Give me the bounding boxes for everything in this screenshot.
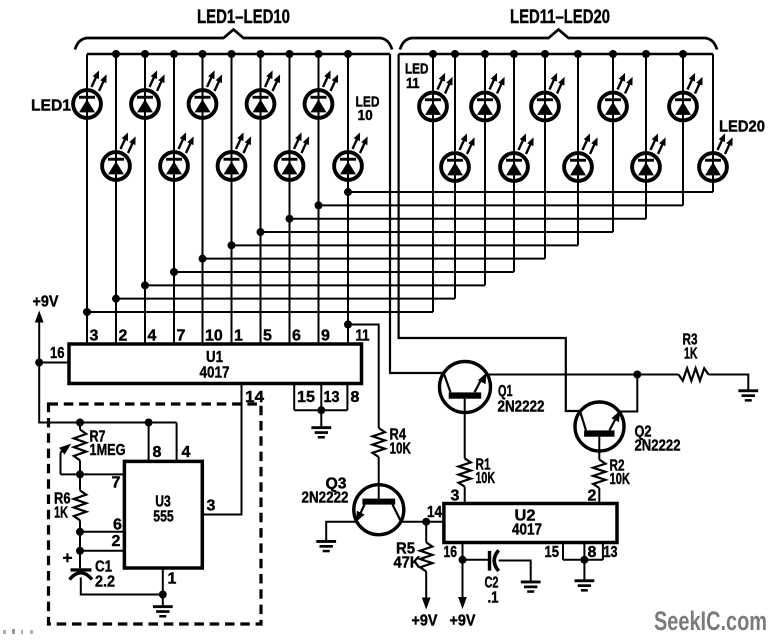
svg-text:8: 8 [351, 389, 360, 406]
ground C2 [521, 581, 541, 593]
label R3 [683, 332, 698, 349]
brace over LED11-LED20 [400, 30, 717, 50]
svg-text:6: 6 [113, 517, 122, 534]
wire right column 3 (LED13) [484, 54, 486, 285]
U1 output pin numbers [90, 328, 331, 345]
wire pairing LED3/LED13 [141, 281, 485, 289]
ground U1 pins 15-13-8 [311, 410, 331, 438]
label R5 [396, 541, 415, 558]
U3 pin 8 label [153, 444, 162, 461]
svg-text:LED1–LED10: LED1–LED10 [197, 7, 290, 28]
scan artifact bottom-left [3, 629, 33, 634]
U3 pin 4 label [182, 444, 191, 461]
wire Q1 base to R1 [464, 399, 466, 459]
wire left column 5 (LED5 to U1) [202, 54, 204, 344]
svg-text:+9V: +9V [33, 294, 59, 311]
resistor R5 [420, 522, 432, 572]
wire U1 pin16 to +9V rail [39, 362, 69, 364]
U1 pin 16 label [50, 345, 65, 362]
U3 pin 6 label [113, 517, 122, 534]
ground Q3 emitter [316, 540, 336, 552]
watermark SeekIC.com [654, 606, 767, 636]
LED7 [247, 70, 281, 117]
LED1 [73, 70, 107, 117]
label Q3 type [302, 490, 349, 507]
svg-text:3: 3 [207, 498, 216, 515]
LED2 [102, 132, 136, 180]
svg-text:13: 13 [324, 389, 340, 406]
group label LED11-LED20 [510, 7, 610, 28]
U1 pin 13 label [324, 389, 340, 406]
label LED 11 [405, 62, 429, 93]
LED16 [564, 133, 598, 181]
svg-text:+: + [63, 549, 73, 568]
svg-text:15: 15 [297, 389, 315, 406]
label R7 value [90, 442, 126, 459]
svg-text:10K: 10K [390, 441, 412, 458]
wire right column 1 (LED11) [432, 54, 434, 312]
wire pairing LED9/LED19 [315, 201, 684, 209]
svg-text:2N2222: 2N2222 [498, 399, 545, 416]
svg-text:4: 4 [182, 444, 191, 461]
wire U1 pin14 to U3 pin3 [202, 384, 241, 515]
wire U2 pin16 [462, 543, 464, 560]
svg-text:2: 2 [588, 488, 597, 505]
resistor R1 [459, 458, 471, 503]
resistor R6 [74, 474, 86, 568]
U3 pin 1 label [168, 571, 177, 588]
label R4 [390, 427, 407, 444]
LED17 [599, 73, 633, 120]
junction dot U3 pin6 node [76, 528, 84, 536]
label Q2 [635, 424, 652, 441]
junction dot pin16 [459, 556, 467, 564]
U1 4017 [69, 344, 362, 384]
wire U3 pin8 [148, 423, 150, 462]
wire right column 5 (LED15) [544, 54, 546, 259]
svg-text:SeekIC.com: SeekIC.com [654, 606, 767, 636]
LED15 [531, 73, 565, 120]
U2 pin 16 label [444, 544, 458, 561]
wire Q2 emitter riser [620, 375, 638, 412]
label R2 value [610, 471, 631, 488]
label C1 value [95, 574, 115, 591]
capacitor C1 polarity + [63, 549, 73, 568]
wire pairing LED6/LED16 [228, 241, 579, 249]
wire left column 8 (LED8 to U1) [289, 54, 291, 344]
wire right column 8 (LED18) [645, 54, 647, 219]
wire U3 pin6 [80, 531, 124, 533]
resistor R4 [373, 428, 385, 457]
svg-text:2N2222: 2N2222 [635, 438, 681, 455]
+9V label below R5 [412, 613, 438, 630]
svg-text:10K: 10K [476, 470, 496, 487]
svg-text:2N2222: 2N2222 [302, 490, 349, 507]
wire left column 6 (LED6 to U1) [231, 54, 233, 344]
brace over LED1-LED10 [75, 30, 392, 50]
wire left column 1 (LED1 to U1) [86, 54, 88, 344]
wire pairing LED2/LED12 [112, 295, 455, 303]
svg-text:LED11–LED20: LED11–LED20 [510, 7, 610, 28]
svg-text:2.2: 2.2 [95, 574, 115, 591]
wire +9V rail into timer box [39, 363, 176, 423]
wire pairing LED4/LED14 [170, 268, 514, 276]
svg-text:10: 10 [358, 107, 373, 124]
label C2 [485, 575, 499, 592]
wire U3 pin1 [162, 568, 164, 595]
svg-text:1K: 1K [54, 505, 68, 522]
svg-text:1MEG: 1MEG [90, 442, 126, 459]
U2 4017 [444, 504, 617, 543]
wire right column 2 (LED12) [454, 54, 456, 299]
group label LED1-LED10 [197, 7, 290, 28]
wire cathode bus LED11-LED20 [399, 53, 713, 56]
LED13 [471, 73, 505, 120]
svg-text:+9V: +9V [412, 613, 438, 630]
LED11 [419, 73, 453, 120]
resistor R2 [593, 460, 605, 504]
LED9 [305, 70, 339, 117]
wire right column 7 (LED17) [612, 54, 614, 232]
U2 pin 2 label [588, 488, 597, 505]
wire pairing LED1/LED11 [83, 308, 433, 316]
transistor Q2 [575, 402, 624, 451]
label Q3 [326, 476, 347, 493]
U3 555 [124, 461, 202, 568]
svg-text:7: 7 [177, 328, 186, 345]
svg-text:11: 11 [356, 328, 370, 345]
LED19 [669, 73, 703, 120]
label Q1 type [498, 399, 545, 416]
wire left column 4 (LED4 to U1) [173, 54, 175, 344]
wire left column 3 (LED3 to U1) [144, 54, 146, 344]
junction dot U3 pin2 node [76, 547, 84, 555]
U2 pin 8 label [588, 544, 597, 561]
svg-text:9: 9 [321, 328, 330, 345]
wire Q1 emitter to R3 [487, 374, 678, 376]
label C1 [95, 559, 112, 576]
transistor Q1 [440, 362, 491, 413]
wire left column 7 (LED7 to U1) [260, 54, 262, 344]
+9V arrow up [35, 311, 44, 363]
svg-text:5: 5 [263, 328, 272, 345]
label R3 value [684, 346, 698, 363]
LED5 [189, 70, 223, 117]
label LED 10 [356, 95, 380, 125]
svg-text:13: 13 [604, 544, 618, 561]
U1 pin 11 label [356, 328, 370, 345]
wire pairing LED7/LED17 [257, 228, 614, 236]
label R7 [90, 429, 106, 446]
LED10 [334, 132, 368, 180]
wire left column 10 (LED10 to U1) [347, 54, 349, 344]
svg-text:U1: U1 [206, 349, 223, 366]
wire right column 4 (LED14) [513, 54, 515, 272]
LED18 [632, 133, 666, 181]
junction dot pin14 node [422, 518, 430, 526]
transistor Q3 [354, 485, 404, 535]
label R2 [610, 458, 625, 475]
+9V arrow below pin16 [458, 560, 467, 609]
LED20 [699, 133, 733, 181]
wire U3 pin4 [176, 423, 178, 462]
wire Q3 emitter to ground [326, 522, 357, 541]
svg-text:4017: 4017 [200, 365, 230, 382]
junction dot pin16 rail [35, 359, 43, 367]
wire right column 9 (LED19) [682, 54, 684, 205]
LED6 [218, 132, 252, 180]
label R4 value [390, 441, 412, 458]
junction dots on left bus [112, 50, 352, 58]
wire pairing LED5/LED15 [199, 255, 546, 263]
svg-text:8: 8 [588, 544, 597, 561]
U1 pin 8 label [351, 389, 360, 406]
svg-text:10K: 10K [610, 471, 631, 488]
U3 pin 2 label [112, 533, 121, 550]
LED3 [131, 70, 165, 117]
LED12 [441, 133, 475, 181]
wire pin16 to C2 [463, 559, 489, 561]
+9V arrow below R5 [422, 572, 431, 610]
U1 pin 15 label [297, 389, 315, 406]
U3 pin 7 label [112, 475, 121, 492]
label Q1 [498, 383, 513, 400]
svg-text:10: 10 [205, 328, 223, 345]
wire Q2 base to R2 [598, 437, 600, 460]
resistor R3 [679, 368, 709, 380]
wire left column 9 (LED9 to U1) [318, 54, 320, 344]
svg-text:2: 2 [112, 533, 121, 550]
svg-text:11: 11 [406, 76, 420, 92]
label C2 value [488, 590, 499, 607]
label LED1 [31, 98, 71, 115]
LED14 [500, 133, 533, 181]
svg-text:LED1: LED1 [31, 98, 71, 115]
junction dot R7 bottom [76, 470, 84, 478]
U1 pin 14 label [245, 389, 264, 406]
dashed box around 555 timer [49, 404, 262, 624]
wire pairing LED8/LED18 [286, 215, 647, 223]
wire cathode bus LED1-LED10 [87, 53, 390, 56]
label R6 [54, 491, 71, 508]
wire left bus descender to Q1 collector [390, 54, 444, 373]
U3 pin 3 label [207, 498, 216, 515]
label R6 value [54, 505, 68, 522]
label LED20 [719, 119, 765, 136]
wire right column 6 (LED16) [577, 54, 579, 245]
wire U1 pin11 to R4 [348, 325, 379, 429]
LED8 [276, 132, 310, 180]
svg-text:6: 6 [292, 328, 301, 345]
svg-text:16: 16 [50, 345, 65, 362]
wire U3 pin2 [80, 550, 124, 552]
svg-text:3: 3 [90, 328, 99, 345]
svg-text:2: 2 [119, 328, 128, 345]
svg-text:4017: 4017 [512, 522, 542, 539]
U2 pin 15 label [545, 544, 560, 561]
wire pairing LED10/LED20 [344, 188, 713, 196]
capacitor C1 [70, 568, 93, 579]
svg-text:.1: .1 [488, 590, 499, 607]
ground U2 pins 15-8-13 [575, 560, 595, 592]
junction dots on right bus [429, 50, 687, 58]
wire R4 to Q3 [378, 457, 380, 499]
svg-text:8: 8 [153, 444, 162, 461]
junction dot R7 top [76, 419, 84, 427]
U2 pin 14 label [427, 504, 442, 521]
junction dot pin8 rail [145, 419, 153, 427]
wire right bus descender to Q2 collector [399, 54, 582, 411]
svg-text:4: 4 [148, 328, 157, 345]
wire right column 10 (LED20) [712, 54, 714, 192]
svg-text:1: 1 [234, 328, 243, 345]
junction dot Q2 emitter [633, 371, 641, 379]
svg-text:3: 3 [451, 488, 460, 505]
U2 pins 15 8 13 stubs [563, 543, 603, 564]
svg-text:7: 7 [112, 475, 121, 492]
junction dot U3 pin1 [159, 591, 167, 599]
U2 pin 3 label [451, 488, 460, 505]
svg-text:15: 15 [545, 544, 560, 561]
svg-text:555: 555 [153, 509, 174, 526]
label R1 [476, 457, 491, 474]
svg-text:LED20: LED20 [719, 119, 765, 136]
svg-text:Q1: Q1 [498, 383, 513, 400]
wire U3 pin7 [61, 473, 125, 475]
svg-text:16: 16 [444, 544, 458, 561]
label R1 value [476, 470, 496, 487]
ground U3 pin1 [153, 595, 173, 618]
wire R3 to ground [709, 375, 749, 390]
+9V label below pin16 [450, 613, 476, 630]
wire C1 to U3 pin1 ground [81, 578, 163, 595]
svg-text:1: 1 [168, 571, 177, 588]
svg-text:+9V: +9V [450, 613, 476, 630]
U2 pin 13 label [604, 544, 618, 561]
junction dot U1 pin11 [344, 321, 352, 329]
label Q2 type [635, 438, 681, 455]
LED4 [160, 132, 194, 180]
wire Q3 collector to U2 pin14 [401, 521, 444, 523]
potentiometer R7 [59, 423, 86, 475]
label R5 value [394, 555, 421, 572]
svg-text:47K: 47K [394, 555, 421, 572]
wire left column 2 (LED2 to U1) [115, 54, 117, 344]
U1 pins 15 13 8 stubs [294, 384, 347, 415]
svg-text:14: 14 [427, 504, 442, 521]
wire C2 to ground [499, 561, 531, 582]
capacitor C2 [488, 550, 499, 571]
+9V supply label top-left [33, 294, 59, 311]
ground R3 [738, 389, 758, 401]
svg-text:1K: 1K [684, 346, 698, 363]
